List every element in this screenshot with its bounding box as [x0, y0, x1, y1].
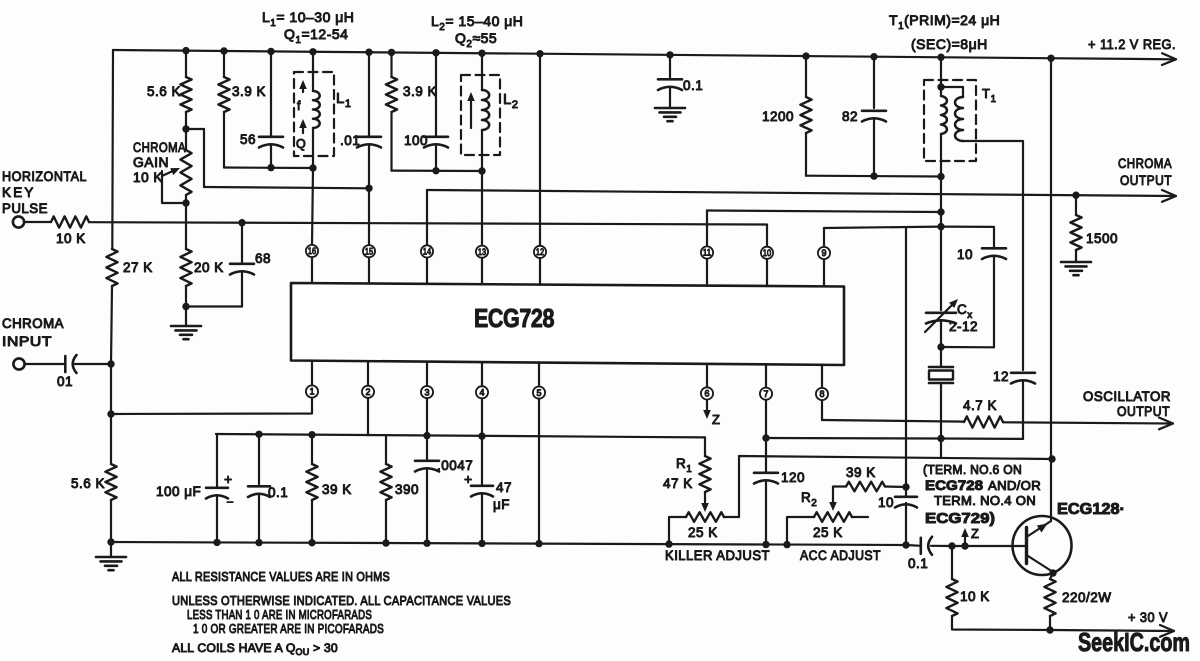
svg-text:3: 3: [424, 387, 429, 397]
svg-text:1 0 OR GREATER ARE IN PIC: 1 0 OR GREATER ARE IN PICOFARADS: [193, 621, 384, 636]
svg-text:2: 2: [365, 387, 370, 397]
svg-text:f: f: [297, 99, 301, 113]
svg-text:68: 68: [255, 251, 271, 266]
svg-text:7: 7: [763, 389, 768, 399]
svg-text:INPUT: INPUT: [2, 334, 52, 349]
svg-text:PULSE: PULSE: [2, 201, 48, 216]
svg-text:13: 13: [478, 247, 486, 257]
svg-text:10 K: 10 K: [56, 231, 86, 246]
svg-text:39 K: 39 K: [846, 465, 876, 480]
svg-text:KILLER ADJUST: KILLER ADJUST: [665, 548, 770, 563]
svg-text:9: 9: [821, 248, 826, 258]
svg-text:47: 47: [496, 480, 512, 495]
svg-text:10 K: 10 K: [133, 170, 163, 185]
svg-text:SeekIC.com: SeekIC.com: [1078, 627, 1190, 657]
svg-text:+: +: [224, 471, 232, 487]
svg-text:ECG728: ECG728: [925, 477, 983, 493]
svg-text:25 K: 25 K: [813, 525, 843, 540]
svg-text:GAIN: GAIN: [133, 155, 169, 170]
svg-text:1: 1: [309, 387, 314, 397]
svg-text:+ 30 V: + 30 V: [1128, 609, 1168, 625]
svg-text:220/2W: 220/2W: [1062, 590, 1112, 605]
svg-text:KEY: KEY: [2, 185, 36, 200]
svg-text:390: 390: [395, 482, 419, 497]
svg-text:UNLESS OTHERWISE INDICATED.: UNLESS OTHERWISE INDICATED. ALL CAPACITA…: [172, 593, 511, 608]
svg-text:12: 12: [536, 247, 544, 257]
svg-text:–: –: [227, 496, 234, 508]
svg-text:.01: .01: [340, 133, 360, 148]
svg-text:AND/OR: AND/OR: [988, 479, 1041, 493]
svg-text:4: 4: [479, 388, 484, 398]
svg-text:100 μF: 100 μF: [156, 484, 201, 499]
svg-text:TERM. NO.4 ON: TERM. NO.4 ON: [934, 494, 1036, 508]
svg-text:01: 01: [57, 374, 73, 389]
svg-text:OUTPUT: OUTPUT: [1117, 404, 1170, 419]
svg-text:ALL RESISTANCE VALUES ARE: ALL RESISTANCE VALUES ARE IN OHMS: [172, 569, 390, 584]
svg-text:5.6 K: 5.6 K: [147, 84, 181, 99]
svg-text:OSCILLATOR: OSCILLATOR: [1083, 389, 1171, 404]
svg-text:82: 82: [842, 109, 858, 124]
svg-text:20 K: 20 K: [194, 260, 224, 275]
svg-text:LESS THAN 1 0 ARE IN MICR: LESS THAN 1 0 ARE IN MICROFARADS: [187, 607, 372, 622]
svg-text:ECG729): ECG729): [925, 510, 995, 527]
svg-text:OUTPUT: OUTPUT: [1120, 173, 1172, 188]
svg-text:ALL COILS HAVE A QOU > 30: ALL COILS HAVE A QOU > 30: [172, 641, 338, 657]
svg-text:10: 10: [878, 495, 894, 510]
svg-text:(SEC)=8μH: (SEC)=8μH: [911, 36, 988, 52]
svg-text:5.6 K: 5.6 K: [71, 476, 105, 491]
svg-text:12: 12: [993, 369, 1009, 384]
svg-text:1500: 1500: [1086, 231, 1118, 246]
svg-text:μF: μF: [493, 497, 510, 512]
svg-text:5: 5: [536, 388, 541, 398]
svg-text:10: 10: [763, 248, 771, 258]
svg-text:3.9 K: 3.9 K: [232, 84, 266, 99]
svg-text:25 K: 25 K: [688, 525, 718, 540]
svg-text:ECG128·: ECG128·: [1057, 501, 1125, 518]
svg-text:27 K: 27 K: [123, 260, 153, 275]
svg-text:10: 10: [957, 247, 973, 262]
svg-text:15: 15: [365, 246, 373, 256]
svg-text:(TERM. NO.6 ON: (TERM. NO.6 ON: [923, 463, 1022, 477]
svg-text:120: 120: [781, 470, 805, 485]
svg-text:3.9 K: 3.9 K: [403, 84, 437, 99]
svg-text:56: 56: [240, 132, 256, 147]
svg-text:0.1: 0.1: [268, 485, 288, 500]
svg-text:39 K: 39 K: [322, 482, 352, 497]
svg-text:CHROMA: CHROMA: [133, 140, 186, 155]
svg-text:+: +: [464, 471, 472, 487]
svg-text:2-12: 2-12: [949, 319, 978, 334]
svg-text:100: 100: [404, 133, 428, 148]
svg-text:10 K: 10 K: [960, 589, 990, 604]
svg-text:47 K: 47 K: [663, 476, 693, 491]
svg-text:0.1: 0.1: [683, 78, 703, 93]
svg-text:16: 16: [308, 246, 316, 256]
svg-text:ACC ADJUST: ACC ADJUST: [800, 548, 881, 563]
svg-text:6: 6: [704, 389, 709, 399]
svg-text:Z: Z: [712, 412, 720, 427]
svg-text:14: 14: [423, 247, 431, 257]
svg-text:1200: 1200: [762, 109, 794, 124]
svg-text:4.7 K: 4.7 K: [963, 398, 997, 413]
svg-text:Q: Q: [296, 137, 306, 151]
svg-text:Z: Z: [971, 526, 979, 541]
svg-text:CHROMA: CHROMA: [1118, 156, 1172, 171]
svg-text:HORIZONTAL: HORIZONTAL: [2, 169, 87, 184]
svg-text:11: 11: [703, 248, 711, 258]
svg-text:0.1: 0.1: [908, 556, 928, 571]
svg-text:CHROMA: CHROMA: [2, 316, 64, 331]
svg-text:ECG728: ECG728: [474, 303, 554, 333]
svg-text:+ 11.2 V REG.: + 11.2 V REG.: [1088, 36, 1176, 52]
svg-text:8: 8: [819, 389, 824, 399]
